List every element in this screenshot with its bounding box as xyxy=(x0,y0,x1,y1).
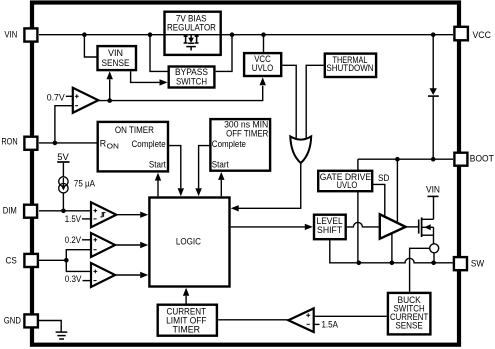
wire 300ns Complete to LOGIC xyxy=(195,146,210,197)
wire VIN SENSE input branch xyxy=(84,35,96,57)
comparator 0.7V VIN sense xyxy=(73,88,99,113)
box ON TIMER xyxy=(98,122,168,171)
transistor PMOS buck switch xyxy=(406,217,434,244)
wire BYPASS input branch xyxy=(150,35,168,72)
label 0.7V xyxy=(47,92,73,102)
box 300 ns MIN OFF TIMER xyxy=(210,119,270,171)
wire BOOT rail to driver top xyxy=(396,159,398,223)
svg-text:VIN: VIN xyxy=(4,29,17,39)
pin BOOT xyxy=(454,153,494,166)
svg-text:VIN: VIN xyxy=(426,185,440,195)
wire SD gate drive to driver xyxy=(373,184,385,216)
pin CS xyxy=(6,254,38,267)
node rail junction dots xyxy=(82,32,435,37)
svg-text:GND: GND xyxy=(4,316,21,326)
wire comparator output to VCC UVLO xyxy=(98,77,266,100)
wire VIN SENSE output to BYPASS xyxy=(131,71,168,85)
wire RON pin to ON TIMER xyxy=(39,141,97,146)
svg-text:VIN: VIN xyxy=(108,48,123,58)
svg-text:SW: SW xyxy=(471,259,485,269)
label 1.5V xyxy=(65,214,91,224)
box LEVEL SHIFT xyxy=(314,215,346,240)
svg-text:OFF TIMER: OFF TIMER xyxy=(226,129,268,139)
box VCC UVLO xyxy=(244,53,281,76)
wire VCC UVLO top branch xyxy=(263,35,265,52)
wire 0.3V comp to LOGIC xyxy=(115,272,148,278)
svg-text:UVLO: UVLO xyxy=(252,63,274,73)
wire VIN rail through regulator xyxy=(165,34,222,36)
comparator DIM 1.5V xyxy=(91,202,116,227)
comparator CS 0.2V xyxy=(91,233,115,257)
box BUCK SWITCH CURRENT SENSE xyxy=(388,293,431,335)
svg-text:75 µA: 75 µA xyxy=(74,178,95,188)
driver buffer xyxy=(380,214,406,238)
box LOGIC xyxy=(149,198,229,287)
svg-text:Complete: Complete xyxy=(212,139,246,149)
zener diode shunt in 7V regulator xyxy=(184,35,199,44)
svg-text:VCC: VCC xyxy=(473,30,492,40)
svg-text:ON: ON xyxy=(107,144,119,151)
svg-text:REGULATOR: REGULATOR xyxy=(167,23,216,33)
wire 0.2V comp to LOGIC xyxy=(115,242,148,248)
wire GATE DRIVE UVLO down to SW node xyxy=(357,192,359,263)
wire CS pin branches xyxy=(39,250,91,272)
label 1.5A xyxy=(314,319,338,329)
wire circle to SW rail xyxy=(433,253,435,263)
label SD xyxy=(378,173,390,183)
svg-text:1.5A: 1.5A xyxy=(322,319,339,329)
svg-text:DIM: DIM xyxy=(3,206,17,216)
wire LEVEL SHIFT to driver with hop xyxy=(347,222,380,227)
svg-text:SENSE: SENSE xyxy=(102,58,130,68)
diode VCC to BOOT xyxy=(428,35,439,160)
svg-text:ON TIMER: ON TIMER xyxy=(115,125,154,135)
svg-text:0.7V: 0.7V xyxy=(47,92,65,102)
wire DIM pin to comparator xyxy=(39,209,91,214)
svg-text:SD: SD xyxy=(378,173,390,183)
label 5V supply xyxy=(57,152,69,177)
wire BUCK sense to comparator plus xyxy=(314,315,387,317)
svg-text:BOOT: BOOT xyxy=(470,154,495,164)
wire driver bottom to SW rail xyxy=(391,234,393,263)
box BYPASS SWITCH xyxy=(169,67,215,88)
svg-text:Start: Start xyxy=(149,160,167,170)
wire ON TIMER Complete to LOGIC xyxy=(169,146,184,197)
wire VCC UVLO to OR gate xyxy=(282,65,296,141)
wire RON to comparator minus xyxy=(55,106,73,143)
current source 75uA xyxy=(59,177,95,193)
box CURRENT LIMIT OFF TIMER xyxy=(158,305,217,336)
svg-text:1.5V: 1.5V xyxy=(65,214,81,224)
svg-text:SENSE: SENSE xyxy=(395,320,423,330)
current sense element circle xyxy=(430,244,439,253)
wire THERMAL SHUTDOWN to OR gate xyxy=(306,65,324,141)
label 0.3V xyxy=(65,274,91,284)
pin VCC xyxy=(454,27,491,41)
wire LOGIC to ON TIMER Start xyxy=(155,173,161,197)
wire GND to ground xyxy=(39,321,61,332)
svg-text:SHIFT: SHIFT xyxy=(317,225,343,235)
wire OR output to LOGIC xyxy=(231,163,301,212)
svg-text:CS: CS xyxy=(6,256,17,266)
wire sense tap to BUCK sense box xyxy=(410,248,430,291)
svg-text:R: R xyxy=(100,139,106,149)
svg-text:TIMER: TIMER xyxy=(173,325,201,335)
wire current limit timer to LOGIC xyxy=(183,288,189,304)
pin SW xyxy=(454,257,485,270)
ground bar of 7V regulator xyxy=(186,47,196,51)
box THERMAL SHUTDOWN xyxy=(325,54,376,77)
wire current source to DIM node xyxy=(62,193,64,211)
pin GND xyxy=(4,314,38,327)
pin VIN xyxy=(4,28,37,41)
OR gate shutdown xyxy=(290,136,311,163)
svg-text:Complete: Complete xyxy=(132,139,166,149)
ground symbol xyxy=(56,332,68,339)
svg-text:UVLO: UVLO xyxy=(337,180,358,190)
box VIN SENSE xyxy=(98,46,137,70)
wire SW rail with hop xyxy=(330,240,453,265)
svg-text:Start: Start xyxy=(212,159,230,169)
svg-text:SHUTDOWN: SHUTDOWN xyxy=(326,63,373,73)
svg-text:0.2V: 0.2V xyxy=(65,235,81,245)
svg-text:LOGIC: LOGIC xyxy=(176,237,202,247)
pin RON xyxy=(1,136,37,150)
wire BOOT rail xyxy=(358,157,453,171)
pin DIM xyxy=(3,205,37,218)
wire comparator to current limit timer xyxy=(218,319,288,321)
box GATE DRIVE UVLO xyxy=(318,171,372,191)
regulator U1 7V BIAS REGULATOR xyxy=(165,12,221,55)
wire feedback up to VIN SENSE xyxy=(107,71,113,103)
label 0.2V xyxy=(65,235,91,245)
svg-text:SWITCH: SWITCH xyxy=(176,76,207,86)
svg-text:5V: 5V xyxy=(57,152,69,162)
label VIN supply at switch xyxy=(426,185,440,220)
wire VIN rail xyxy=(39,34,453,36)
comparator current limit 1.5A xyxy=(288,308,313,332)
wire LOGIC to 300ns Start xyxy=(218,172,224,196)
wire LOGIC to LEVEL SHIFT xyxy=(231,224,313,230)
svg-text:0.3V: 0.3V xyxy=(65,274,82,284)
comparator CS 0.3V xyxy=(91,263,115,287)
wire BYPASS output to rail xyxy=(216,35,232,72)
wire DIM comp to LOGIC xyxy=(116,212,148,218)
svg-text:RON: RON xyxy=(1,136,17,146)
